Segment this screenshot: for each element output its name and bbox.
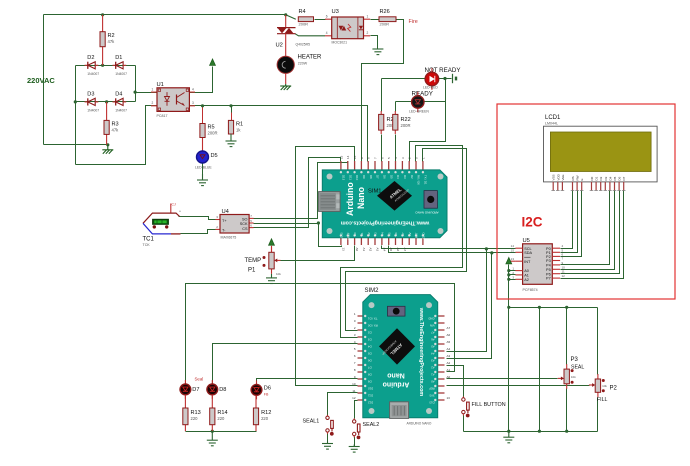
svg-text:MAX6675: MAX6675 <box>221 235 237 239</box>
IC U4 MAX6675 <box>215 209 253 240</box>
wire SEAL1 to ground <box>327 433 329 444</box>
svg-text:D4: D4 <box>368 344 372 348</box>
svg-text:D3: D3 <box>403 175 407 179</box>
svg-text:13: 13 <box>511 257 515 261</box>
ground SEAL2 <box>349 445 360 453</box>
svg-text:I2C: I2C <box>522 215 543 230</box>
potentiometer P2 P2 <box>589 374 618 403</box>
svg-text:SIM2: SIM2 <box>365 288 380 294</box>
wire U4 SCK to SIM1 D13 <box>254 224 342 247</box>
svg-text:FB: FB <box>264 393 269 397</box>
svg-text:ARDUINO NANO: ARDUINO NANO <box>407 422 432 426</box>
svg-text:A7: A7 <box>403 248 407 252</box>
svg-text:SCK: SCK <box>240 222 248 226</box>
ground heater <box>280 84 291 90</box>
resistor R2 <box>100 15 115 66</box>
wire P1 wiper to SIM1 A0 <box>281 246 355 261</box>
ground SEAL1 <box>322 442 333 450</box>
svg-text:D2: D2 <box>87 55 94 61</box>
svg-text:CS: CS <box>242 227 248 231</box>
svg-text:INT: INT <box>524 260 531 264</box>
wire SIM1 TX to SIM2 D3 <box>341 146 463 338</box>
svg-text:VEE: VEE <box>561 174 565 180</box>
wire D6 to SIM2 D9 <box>257 379 358 385</box>
ground P1 <box>266 274 277 284</box>
wire R20 top <box>381 79 383 112</box>
wire TC1 minus to U4 T- <box>181 230 216 234</box>
wire R5 branch <box>202 106 204 124</box>
svg-text:D5: D5 <box>613 176 617 180</box>
svg-text:1N4007: 1N4007 <box>115 108 127 112</box>
wire U1 pin4 to power <box>190 67 213 93</box>
wire SIM2 A0 to P2 wiper <box>447 385 590 387</box>
svg-text:U2: U2 <box>276 43 283 49</box>
svg-text:R4: R4 <box>299 9 306 15</box>
wire D5 to ground <box>202 164 204 175</box>
wire U5 P5 to LCD D5 <box>561 191 615 270</box>
svg-text:D13: D13 <box>429 400 435 404</box>
svg-text:T+: T+ <box>222 219 227 223</box>
svg-text:200R: 200R <box>299 22 309 27</box>
svg-text:D12: D12 <box>368 400 374 404</box>
svg-text:MOC3021: MOC3021 <box>332 41 348 45</box>
LED D7 D7 <box>180 380 199 399</box>
power arrow U5 <box>506 258 512 264</box>
svg-text:TX / D1: TX / D1 <box>424 175 428 185</box>
wire R1 branch <box>231 106 233 113</box>
wire bridge left rail down <box>75 66 77 165</box>
svg-text:GND: GND <box>422 233 426 239</box>
svg-text:A4: A4 <box>381 232 385 236</box>
wire loop bottom to U1 pin2 <box>76 106 158 165</box>
wire U5 P1 to LCD RW <box>561 191 578 253</box>
wire vertical mid <box>539 308 541 432</box>
thermocouple TC1 <box>143 203 182 248</box>
svg-text:D7: D7 <box>622 176 626 180</box>
resistor R12 <box>253 395 271 431</box>
wire bottom ground rail <box>464 431 598 433</box>
wire bottom left rail <box>186 431 257 433</box>
svg-text:D5: D5 <box>211 153 218 159</box>
wire bridge right rail <box>135 66 137 102</box>
svg-text:D1: D1 <box>595 176 599 180</box>
junction dots <box>101 13 104 16</box>
svg-text:A1: A1 <box>431 372 435 376</box>
svg-text:LED-BLUE: LED-BLUE <box>195 166 212 170</box>
LED D5 blue <box>195 151 218 170</box>
svg-text:A0: A0 <box>447 375 451 379</box>
svg-text:A0: A0 <box>431 379 435 383</box>
svg-text:R26: R26 <box>380 9 390 15</box>
svg-text:A7: A7 <box>431 330 435 334</box>
wire SEAL2 to ground <box>354 437 356 447</box>
wire D7 to SIM2 A2 <box>186 284 455 384</box>
svg-text:14: 14 <box>346 155 350 159</box>
svg-text:D13: D13 <box>340 232 344 238</box>
svg-text:10: 10 <box>562 265 566 269</box>
svg-text:P3: P3 <box>546 259 551 263</box>
wire bridge top rail <box>76 65 136 67</box>
svg-text:D6: D6 <box>383 175 387 179</box>
svg-text:D10: D10 <box>368 386 374 390</box>
svg-text:D11: D11 <box>348 175 352 180</box>
svg-text:www.TheEngineeringProjects.com: www.TheEngineeringProjects.com <box>341 220 431 226</box>
wire 220VAC top rail <box>44 14 286 16</box>
diode D2 <box>85 55 100 76</box>
wire U3 pin2 to ground <box>371 36 378 50</box>
svg-text:LED-RED: LED-RED <box>423 86 438 90</box>
svg-text:E: E <box>580 178 584 180</box>
svg-text:P7: P7 <box>546 277 551 281</box>
LED D_READY <box>412 92 424 112</box>
optotriac U3 MOC3021 <box>325 9 370 45</box>
svg-text:3: 3 <box>192 101 194 105</box>
wire U5 A0 A1 A2 stubs <box>509 270 516 272</box>
svg-text:A1: A1 <box>362 248 366 252</box>
LED D_NOTREADY <box>425 68 439 90</box>
svg-text:13: 13 <box>341 248 345 252</box>
svg-text:VSS: VSS <box>552 174 556 180</box>
triac U2 Q4025R5 <box>276 15 311 57</box>
svg-text:A1: A1 <box>524 274 529 278</box>
resistor R22 <box>393 111 411 134</box>
resistor R4 <box>298 9 313 27</box>
svg-text:11: 11 <box>562 270 565 274</box>
svg-text:47k: 47k <box>112 128 120 133</box>
svg-text:D6: D6 <box>264 386 271 392</box>
I2C subsystem frame <box>497 104 675 299</box>
svg-text:D4: D4 <box>115 91 122 97</box>
svg-text:D1: D1 <box>115 55 122 61</box>
wire U5 P4 to LCD D4 <box>561 191 610 265</box>
svg-text:A6: A6 <box>394 232 398 236</box>
svg-text:PCF8574: PCF8574 <box>523 288 538 292</box>
LED D8 D8 <box>207 380 226 399</box>
svg-text:15: 15 <box>511 248 515 252</box>
svg-text:A3: A3 <box>447 354 451 358</box>
wire SEAL2 to SIM2 D12 <box>355 401 358 419</box>
svg-text:A4: A4 <box>382 248 386 252</box>
push button SEAL1 <box>303 415 334 436</box>
wire U1 pin3 net to SIM1 D12 <box>190 106 368 162</box>
svg-text:D3: D3 <box>604 176 608 180</box>
svg-text:220VAC: 220VAC <box>27 76 55 85</box>
wire READY net to SIM1 D3 <box>425 101 446 103</box>
svg-text:SEAL1: SEAL1 <box>303 418 320 424</box>
svg-text:SO: SO <box>242 218 248 222</box>
svg-text:D2: D2 <box>410 175 414 179</box>
LED D6 D6 <box>251 381 271 400</box>
wire triac gate to U3 <box>295 34 325 36</box>
svg-text:A2: A2 <box>524 278 529 282</box>
resistor R14 <box>210 395 228 431</box>
wire P3 top <box>566 308 568 365</box>
svg-text:RS: RS <box>571 176 575 180</box>
svg-text:RST: RST <box>415 232 419 238</box>
svg-text:PC817: PC817 <box>157 114 168 118</box>
svg-text:U5: U5 <box>523 238 530 244</box>
wire U4 CS to SIM1 pin1 <box>254 158 341 228</box>
svg-text:P1: P1 <box>248 268 256 274</box>
svg-text:D10: D10 <box>355 175 359 181</box>
svg-text:D4: D4 <box>608 176 612 180</box>
svg-text:A3: A3 <box>431 358 435 362</box>
svg-text:1N4007: 1N4007 <box>87 108 99 112</box>
svg-text:1: 1 <box>367 15 369 19</box>
wire U5 P0 to LCD RS <box>561 191 573 249</box>
svg-text:U1: U1 <box>157 82 164 88</box>
wire R22 top <box>395 102 397 112</box>
IC U5 PCF8574 <box>511 238 566 292</box>
svg-text:10k: 10k <box>276 272 281 276</box>
svg-text:TC1: TC1 <box>143 237 155 243</box>
diode D4 <box>113 91 128 112</box>
wire U4 SO to SIM1 pin2 <box>254 162 348 219</box>
svg-text:D2: D2 <box>368 330 372 334</box>
wire FILL BUTTON to SIM2 A3 <box>447 366 464 397</box>
svg-text:VIN: VIN <box>430 323 435 327</box>
svg-text:1: 1 <box>152 88 154 92</box>
svg-text:+: + <box>179 210 181 214</box>
svg-text:Arduino: Arduino <box>345 182 355 216</box>
svg-text:LM044L: LM044L <box>545 122 558 126</box>
svg-text:3V3: 3V3 <box>429 393 434 397</box>
svg-text:15: 15 <box>339 155 343 159</box>
LCD LCD1 LM044L <box>544 115 658 191</box>
svg-text:P3: P3 <box>571 357 579 363</box>
svg-text:FILL BUTTON: FILL BUTTON <box>472 402 506 408</box>
svg-text:D0: D0 <box>590 176 594 180</box>
svg-text:A3: A3 <box>374 232 378 236</box>
wire gnd horizontal rail <box>509 307 598 309</box>
svg-text:SEAL: SEAL <box>571 365 584 371</box>
wire READY led left <box>396 101 412 103</box>
svg-text:A2: A2 <box>447 361 451 365</box>
svg-text:RX / D0: RX / D0 <box>368 323 378 327</box>
svg-text:P5: P5 <box>546 268 551 272</box>
svg-text:Arduino: Arduino <box>383 381 410 388</box>
svg-text:Seal: Seal <box>195 377 204 382</box>
svg-text:D2: D2 <box>599 176 603 180</box>
svg-text:P4: P4 <box>546 264 551 268</box>
svg-text:10k: 10k <box>602 384 607 388</box>
svg-text:6: 6 <box>326 15 328 19</box>
svg-text:47k: 47k <box>108 39 116 44</box>
svg-text:SEAL2: SEAL2 <box>363 422 380 428</box>
svg-text:220: 220 <box>217 416 225 421</box>
svg-text:A2: A2 <box>431 365 435 369</box>
lamp HEATER <box>277 55 322 85</box>
svg-text:1N4007: 1N4007 <box>87 72 99 76</box>
svg-text:4: 4 <box>192 88 194 92</box>
wire R22 bottom to pin <box>395 135 397 162</box>
push button SEAL2 <box>353 418 380 439</box>
svg-text:A7: A7 <box>401 232 405 236</box>
svg-text:REF: REF <box>429 386 435 390</box>
wire NOT READY right junction <box>439 78 452 80</box>
resistor R13 <box>183 395 201 431</box>
svg-text:A6: A6 <box>447 333 451 337</box>
resistor R5 <box>200 124 218 152</box>
wire D8 to SIM2 D4 <box>213 344 358 384</box>
wire Fire net R26 to SIM1 D11 <box>362 20 404 162</box>
resistor R3 <box>104 102 119 145</box>
svg-text:A6: A6 <box>431 337 435 341</box>
svg-text:10: 10 <box>352 382 356 386</box>
wire U5 P6 to LCD D6 <box>561 191 620 274</box>
svg-text:D7: D7 <box>376 175 380 179</box>
wire SIM1 A4 / U5 SCL / SIM2 A5 <box>382 246 516 249</box>
svg-text:200R: 200R <box>380 22 390 27</box>
power terminal <box>453 74 457 83</box>
wire bridge to U1 pin1 <box>136 92 158 94</box>
ground U3 <box>372 49 383 55</box>
svg-text:ARDUINO NANO: ARDUINO NANO <box>415 211 439 215</box>
svg-text:D4: D4 <box>396 175 400 179</box>
svg-text:2: 2 <box>152 101 154 105</box>
svg-text:AREF: AREF <box>346 232 350 240</box>
wire top rail to R4 <box>286 15 296 19</box>
svg-text:A7: A7 <box>447 326 451 330</box>
ground R1 <box>226 134 237 147</box>
svg-text:A6: A6 <box>396 248 400 252</box>
svg-text:LCD1: LCD1 <box>545 115 561 121</box>
Arduino Nano module SIM2 <box>352 288 450 426</box>
svg-text:A2: A2 <box>367 232 371 236</box>
svg-text:D7: D7 <box>368 365 372 369</box>
wire NOT READY led left <box>382 78 425 80</box>
wire SIM1 D11 to SIM2 D10 <box>296 147 358 386</box>
wire 220VAC bottom to bridge <box>44 144 108 146</box>
ground right rail <box>503 431 514 443</box>
svg-text:200R: 200R <box>401 123 411 128</box>
wire SEAL1 to SIM2 D11 <box>328 393 358 416</box>
svg-text:P2: P2 <box>610 386 618 392</box>
svg-text:A0: A0 <box>355 248 359 252</box>
svg-text:www.TheEngineeringProjects.com: www.TheEngineeringProjects.com <box>418 307 424 397</box>
potentiometer TEMP P1 <box>248 247 281 276</box>
svg-text:D5: D5 <box>389 175 393 179</box>
svg-text:10k: 10k <box>571 375 576 379</box>
svg-text:LED-GREEN: LED-GREEN <box>409 110 429 114</box>
resistor R20 <box>379 111 397 134</box>
svg-text:D8: D8 <box>369 175 373 179</box>
wire R20 bottom to pin <box>381 135 383 162</box>
svg-text:U4: U4 <box>222 209 230 215</box>
svg-text:D13: D13 <box>342 175 346 181</box>
svg-text:D11: D11 <box>368 393 373 397</box>
ground bottom-left <box>207 431 218 446</box>
svg-text:RW: RW <box>576 175 580 180</box>
svg-text:200R: 200R <box>208 131 218 136</box>
svg-text:D6: D6 <box>368 358 372 362</box>
svg-text:A5: A5 <box>431 344 435 348</box>
wire P2 bottom <box>597 398 599 432</box>
svg-text:VDD: VDD <box>556 173 560 180</box>
svg-text:FILL: FILL <box>597 397 607 403</box>
svg-text:Nano: Nano <box>387 372 405 379</box>
wire TC1 plus to U4 T+ <box>179 217 216 220</box>
wire FILL BUTTON to bottom rail <box>463 416 465 432</box>
svg-text:U3: U3 <box>332 9 339 15</box>
diode D1 <box>113 55 128 76</box>
resistor R26 <box>379 9 396 27</box>
wire SIM1 RX to SIM2 D2 <box>346 149 467 331</box>
svg-text:A2: A2 <box>369 248 373 252</box>
svg-text:2: 2 <box>367 31 369 35</box>
wire P3 bottom <box>566 389 568 432</box>
svg-text:CJ: CJ <box>172 203 176 207</box>
svg-text:SIM1: SIM1 <box>368 189 382 195</box>
wire SIM1 A5 / U5 SDA / SIM2 A4 <box>389 246 516 253</box>
wire SIM2 A1 to P3 wiper <box>447 378 558 380</box>
wire U5 P2 to LCD E <box>561 191 582 257</box>
svg-text:220W: 220W <box>298 62 308 66</box>
wire U5 P7 to LCD D7 <box>561 191 624 279</box>
Arduino Nano module SIM1 <box>319 155 447 251</box>
svg-text:D8: D8 <box>368 372 372 376</box>
svg-text:A3: A3 <box>375 248 379 252</box>
svg-text:D5: D5 <box>368 351 372 355</box>
svg-text:D7: D7 <box>192 387 199 393</box>
push button FILL <box>462 397 506 418</box>
svg-text:D8: D8 <box>219 387 226 393</box>
svg-text:GND: GND <box>428 316 434 320</box>
svg-text:13: 13 <box>447 396 451 400</box>
optocoupler U1 PC817 <box>151 82 195 118</box>
svg-text:1N4007: 1N4007 <box>115 72 127 76</box>
svg-text:12: 12 <box>562 274 566 278</box>
wire 220VAC left <box>43 15 45 145</box>
svg-text:A0: A0 <box>353 232 357 236</box>
svg-text:RX / D0: RX / D0 <box>417 175 421 185</box>
svg-text:A1: A1 <box>360 232 364 236</box>
svg-text:D9: D9 <box>362 175 366 179</box>
svg-text:A5: A5 <box>387 232 391 236</box>
ground D5 <box>197 174 208 186</box>
svg-text:D3: D3 <box>368 337 372 341</box>
svg-text:5V: 5V <box>408 232 412 236</box>
svg-text:A1: A1 <box>447 368 451 372</box>
svg-text:D9: D9 <box>368 379 372 383</box>
svg-text:TEMP: TEMP <box>245 258 262 264</box>
svg-text:12: 12 <box>352 396 356 400</box>
diode D3 <box>85 91 100 112</box>
svg-text:TX / D1: TX / D1 <box>368 316 378 320</box>
svg-text:D3: D3 <box>87 91 94 97</box>
potentiometer P3 P3 <box>558 357 585 389</box>
svg-text:Fire: Fire <box>409 19 418 25</box>
svg-text:TCK: TCK <box>143 243 151 247</box>
svg-text:Q4025R5: Q4025R5 <box>296 43 311 47</box>
power arrow P1 <box>269 239 275 245</box>
wire INT stub <box>509 260 516 262</box>
ground bridge <box>102 145 113 154</box>
svg-text:HEATER: HEATER <box>298 55 323 61</box>
wire U3 pin1 to R26 <box>371 19 380 21</box>
svg-text:A5: A5 <box>447 340 451 344</box>
wire P2 top <box>597 308 599 375</box>
svg-text:4: 4 <box>326 31 328 35</box>
svg-text:220: 220 <box>261 416 269 421</box>
svg-text:D6: D6 <box>618 176 622 180</box>
svg-text:Nano: Nano <box>356 186 366 209</box>
power arrow U1 <box>210 59 216 65</box>
wire bridge bottom rail <box>76 101 136 103</box>
resistor R1 <box>228 120 243 134</box>
svg-text:A5: A5 <box>389 248 393 252</box>
svg-text:220: 220 <box>191 416 199 421</box>
